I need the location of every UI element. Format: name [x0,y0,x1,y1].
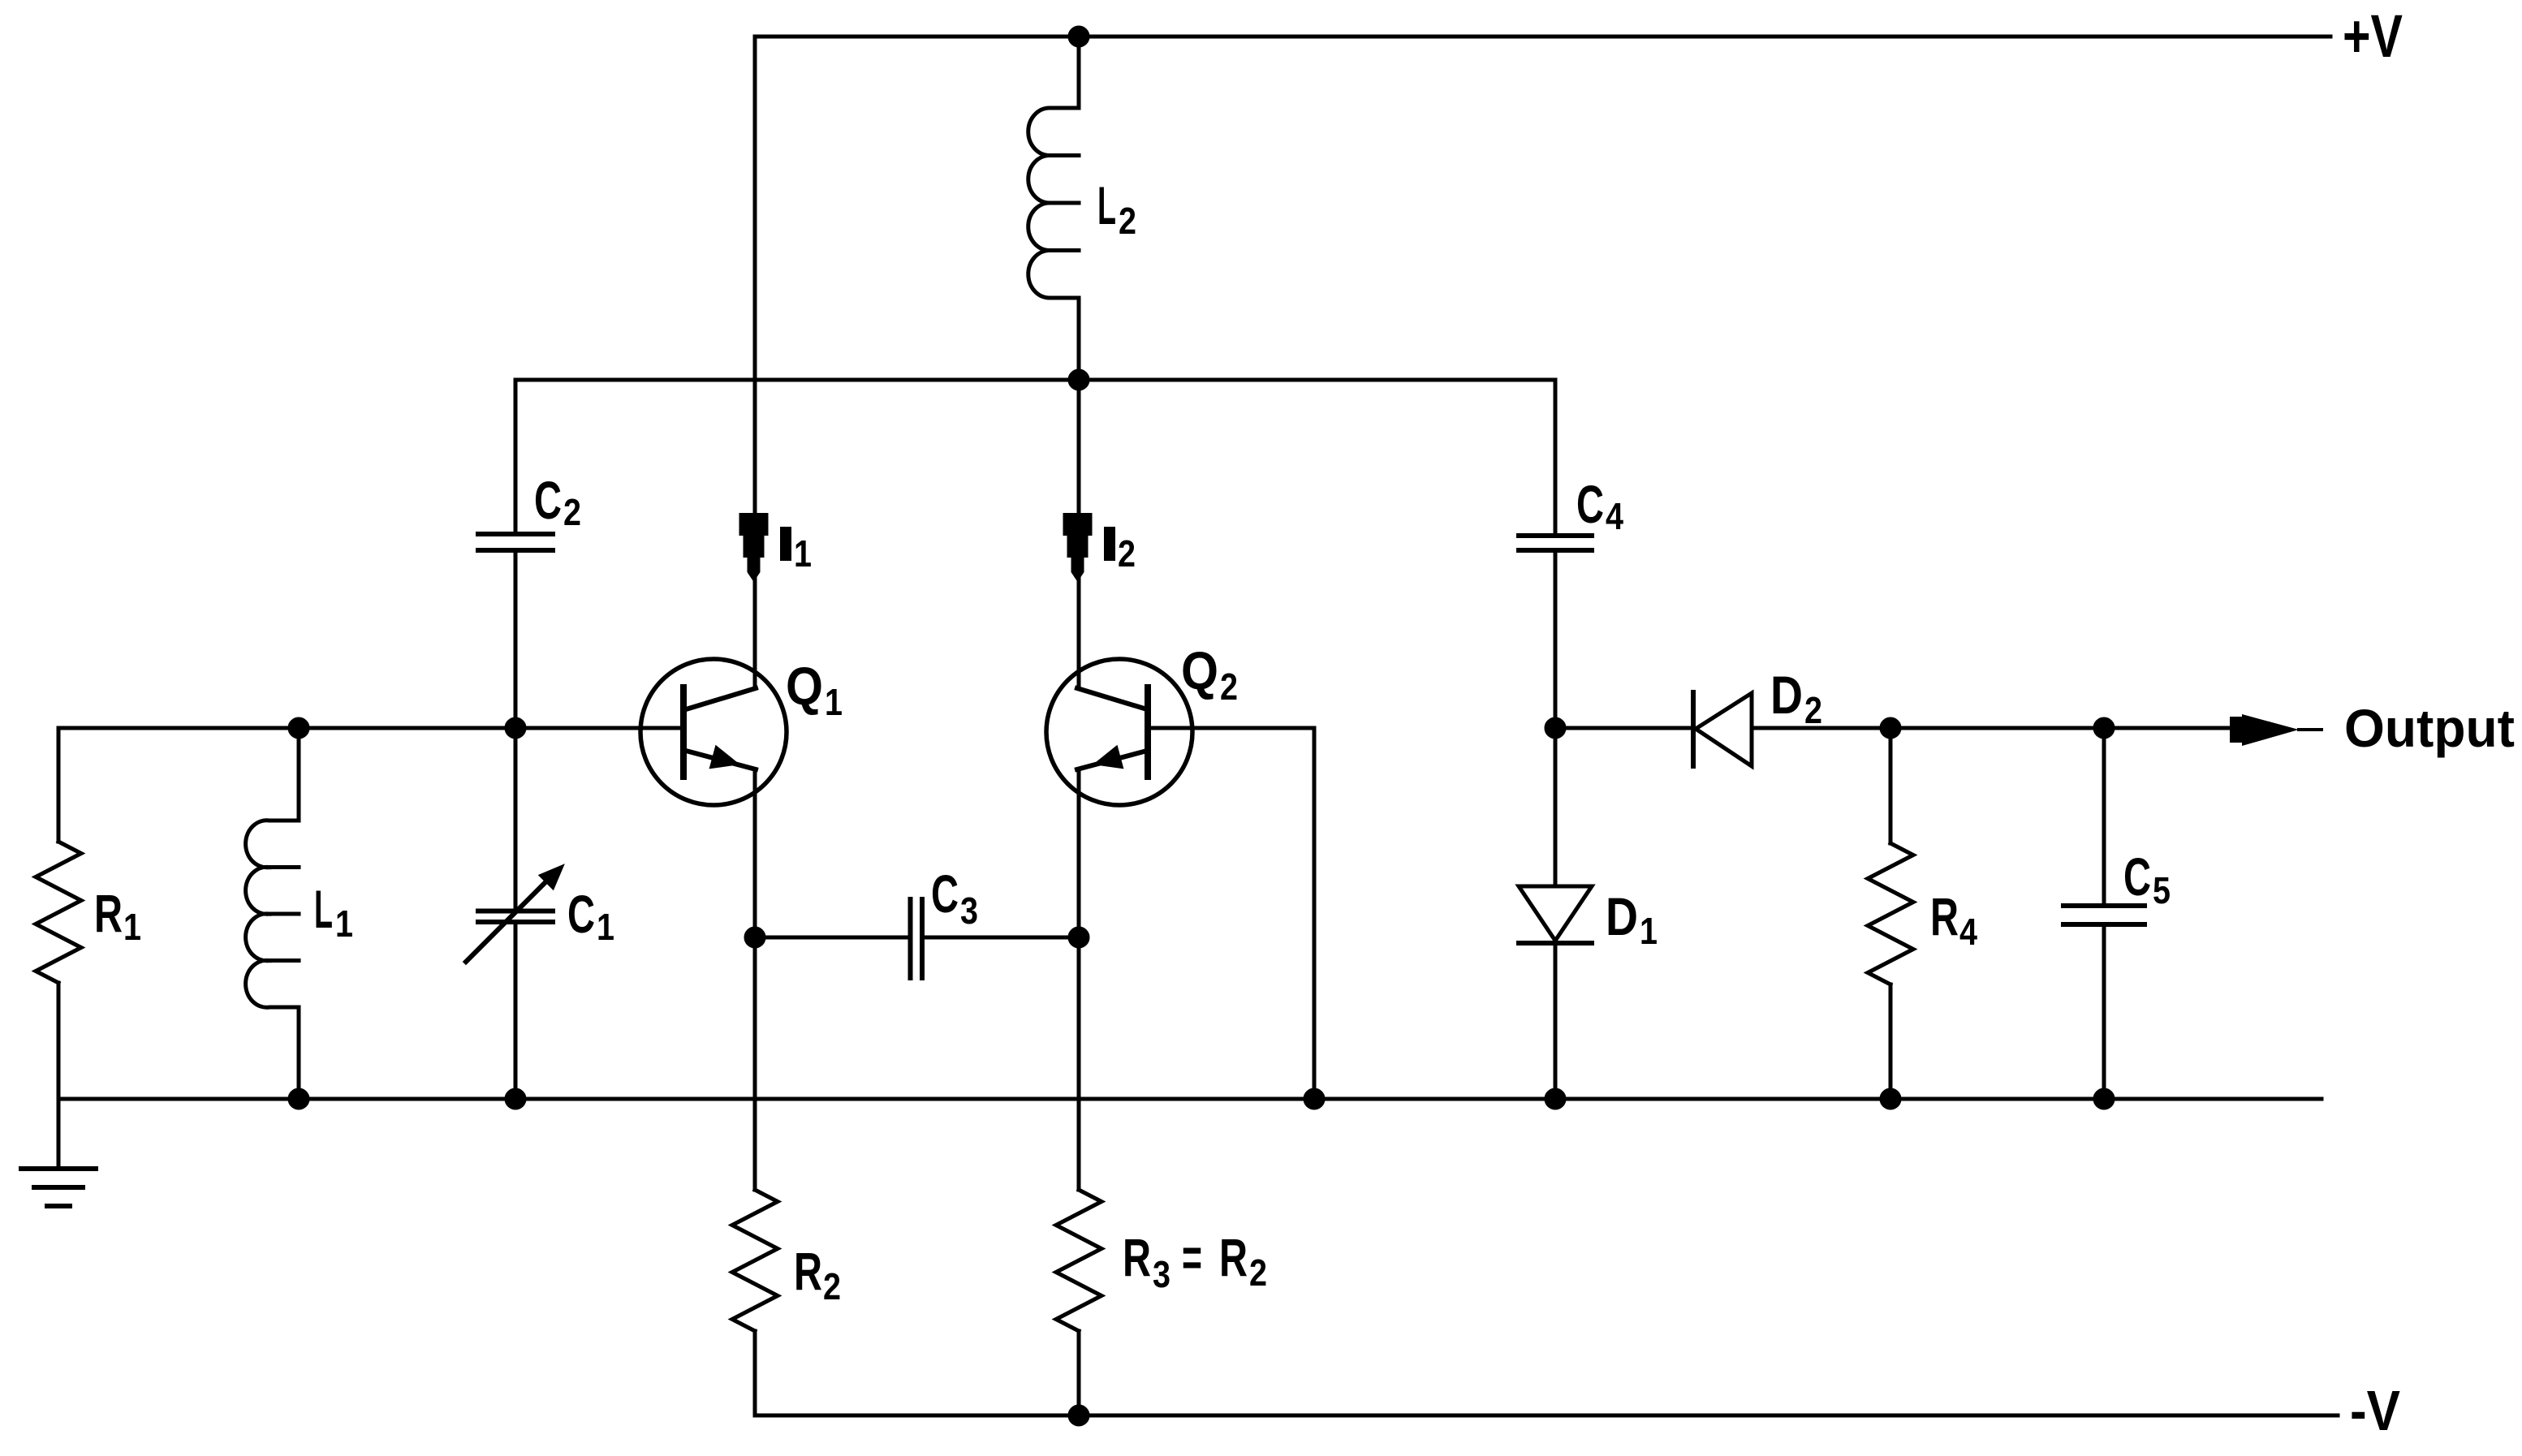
node junction dot L2 bottom [1070,371,1088,389]
svg-text:D: D [1770,665,1803,725]
svg-text:2: 2 [1119,200,1136,242]
resistor R4 [1868,728,1913,1099]
diode D2 [1693,692,1890,766]
label Q1 [786,656,843,723]
wire Q1 emitter vertical [753,769,757,1190]
label D1 [1606,886,1658,952]
node junction dot C3 left [746,928,764,946]
svg-text:2: 2 [1804,689,1822,731]
wire Q1 collector vertical from +V rail [753,37,757,688]
label C3 [931,864,978,932]
capacitor C3 [755,899,1079,978]
svg-text:R: R [1219,1227,1248,1287]
current arrow I2 [1063,513,1093,582]
svg-text:3: 3 [960,890,978,932]
node junction dot L1 bottom [290,1090,308,1108]
svg-text:L: L [1097,175,1116,235]
svg-text:1: 1 [597,906,614,948]
label C1 [567,884,614,948]
label D2 [1770,665,1822,731]
svg-text:L: L [314,879,333,939]
label R4 [1930,886,1977,953]
svg-text:R: R [1930,886,1959,946]
svg-text:2: 2 [1118,532,1136,575]
node junction dot L1 top [290,719,308,737]
label Q2 [1181,640,1238,708]
wire Q2 collector vertical [1077,380,1081,688]
wire +V top rail [755,35,2330,39]
svg-text:2: 2 [1220,666,1238,708]
svg-text:Output: Output [2344,698,2515,758]
svg-text:+V: +V [2343,2,2403,70]
node junction dot R3 on -V rail [1070,1406,1088,1424]
label R3 = R2 [1123,1227,1267,1295]
svg-text:1: 1 [1640,910,1658,952]
node junction dot C2/C1 base [507,719,524,737]
node junction dot Q2 base drop on mid rail [1305,1090,1323,1108]
svg-text:C: C [931,864,959,924]
current arrow I1 [739,513,769,582]
label C5 [2123,846,2171,911]
capacitor C2 [478,380,553,728]
wire Q2 emitter vertical [1077,769,1081,1190]
node junction dot D1 bottom [1546,1090,1564,1108]
svg-text:D: D [1606,886,1638,946]
svg-text:Q: Q [1181,640,1218,700]
svg-text:C: C [567,884,595,944]
resistor R2 [732,1190,778,1415]
svg-text:R: R [794,1241,822,1301]
inductor L2 [1028,37,1079,380]
node junction dot C1 bottom [507,1090,524,1108]
wire tank rail (C2 - L2 - C4) [515,378,1555,382]
svg-text:4: 4 [1606,495,1623,537]
node junction dot C5 bottom [2095,1090,2113,1108]
label R1 [94,883,141,948]
svg-text:3: 3 [1153,1253,1170,1295]
label L1 [314,879,353,945]
label L2 [1097,175,1136,242]
wire output line to R4 C5 [1890,726,2230,730]
ground [21,1169,96,1206]
inductor L1 [246,728,299,1099]
svg-text:=: = [1182,1227,1202,1287]
svg-text:4: 4 [1959,911,1977,953]
wire output line C4 node to D2 [1555,726,1692,730]
svg-text:R: R [94,883,123,943]
svg-text:2: 2 [1249,1251,1267,1294]
diode D1 [1519,728,1592,1099]
svg-text:-V: -V [2350,1379,2400,1442]
svg-text:1: 1 [794,532,812,575]
wire Q2 base to right and down [1150,728,1314,1099]
svg-text:2: 2 [823,1265,841,1307]
variable capacitor C1 [466,728,563,1099]
svg-text:R: R [1123,1227,1151,1287]
resistor R3 [1056,1190,1101,1415]
node junction dot R4 top [1882,719,1899,737]
node junction dot top rail / L2 [1070,28,1088,45]
svg-text:C: C [1576,474,1604,534]
label C4 [1576,474,1623,537]
resistor R1 [36,728,81,1169]
capacitor C5 [2063,728,2145,1099]
svg-text:1: 1 [123,906,141,948]
wire mid ground rail [58,1097,2322,1101]
node junction dot C4/D1/D2 [1546,719,1564,737]
transistor Q1 [640,659,787,805]
label C2 [534,470,581,533]
svg-text:1: 1 [335,902,353,945]
output arrow [2230,714,2299,746]
capacitor C4 [1519,380,1592,728]
svg-text:1: 1 [825,681,843,723]
wire output stub [2299,728,2322,731]
node junction dot C3 right [1070,928,1088,946]
svg-text:5: 5 [2153,869,2171,911]
wire -V rail [755,1414,2338,1418]
label I2 [1104,527,1136,575]
svg-text:Q: Q [786,656,823,716]
svg-text:C: C [534,470,562,530]
label I1 [780,527,812,575]
label R2 [794,1241,841,1307]
node junction dot R4 bottom [1882,1090,1899,1108]
svg-text:2: 2 [563,491,581,533]
wire base line (R1 L1 C1 to Q1 base) [58,726,681,730]
node junction dot C5 top [2095,719,2113,737]
svg-text:C: C [2123,846,2151,907]
transistor Q2 [1046,659,1192,805]
